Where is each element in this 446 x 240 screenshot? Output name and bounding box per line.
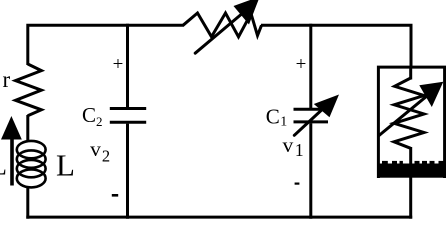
black band (electrode) with dashed top xyxy=(379,161,445,178)
current arrow iL xyxy=(1,116,22,186)
svg-text:+: + xyxy=(296,54,307,75)
wire: top-right horizontal + right vertical down to box xyxy=(261,25,411,68)
wire: box top lead xyxy=(409,66,412,80)
wire: C2 branch upper xyxy=(126,24,129,107)
capacitor C1 bottom plate xyxy=(294,120,329,123)
resistor r xyxy=(16,64,42,116)
svg-text:+: + xyxy=(113,54,124,75)
box (lamp enclosure) xyxy=(378,67,444,178)
arrow through C1 (variable capacitor) xyxy=(294,105,327,135)
wire: resistor r to inductor xyxy=(26,115,29,142)
wire: C1 branch lower xyxy=(309,123,312,218)
svg-text:L: L xyxy=(56,147,75,182)
capacitor C1 top plate xyxy=(294,108,329,111)
label - (C2) xyxy=(112,194,118,197)
inductor L (4 loops) xyxy=(17,141,46,187)
wire: inductor to bottom rail xyxy=(26,186,29,219)
svg-text:r: r xyxy=(3,67,11,92)
variable resistor (top) zigzag xyxy=(183,13,262,37)
arrow through box resistor xyxy=(379,92,432,135)
wire: box resistor to black band xyxy=(409,147,412,165)
wire: C2 branch lower xyxy=(126,124,129,219)
label - (C1) xyxy=(295,183,300,185)
bottom wire xyxy=(26,216,412,219)
capacitor C2 top plate xyxy=(110,107,146,110)
svg-text:L: L xyxy=(0,152,7,181)
wire: box bottom lead to bottom rail xyxy=(409,176,412,219)
wire: top-left horizontal + left vertical corner xyxy=(28,25,184,65)
variable resistor inside box xyxy=(394,78,424,148)
arrow through top resistor xyxy=(195,12,244,53)
wire: C1 branch upper xyxy=(309,24,312,109)
capacitor C2 bottom plate xyxy=(110,121,146,124)
